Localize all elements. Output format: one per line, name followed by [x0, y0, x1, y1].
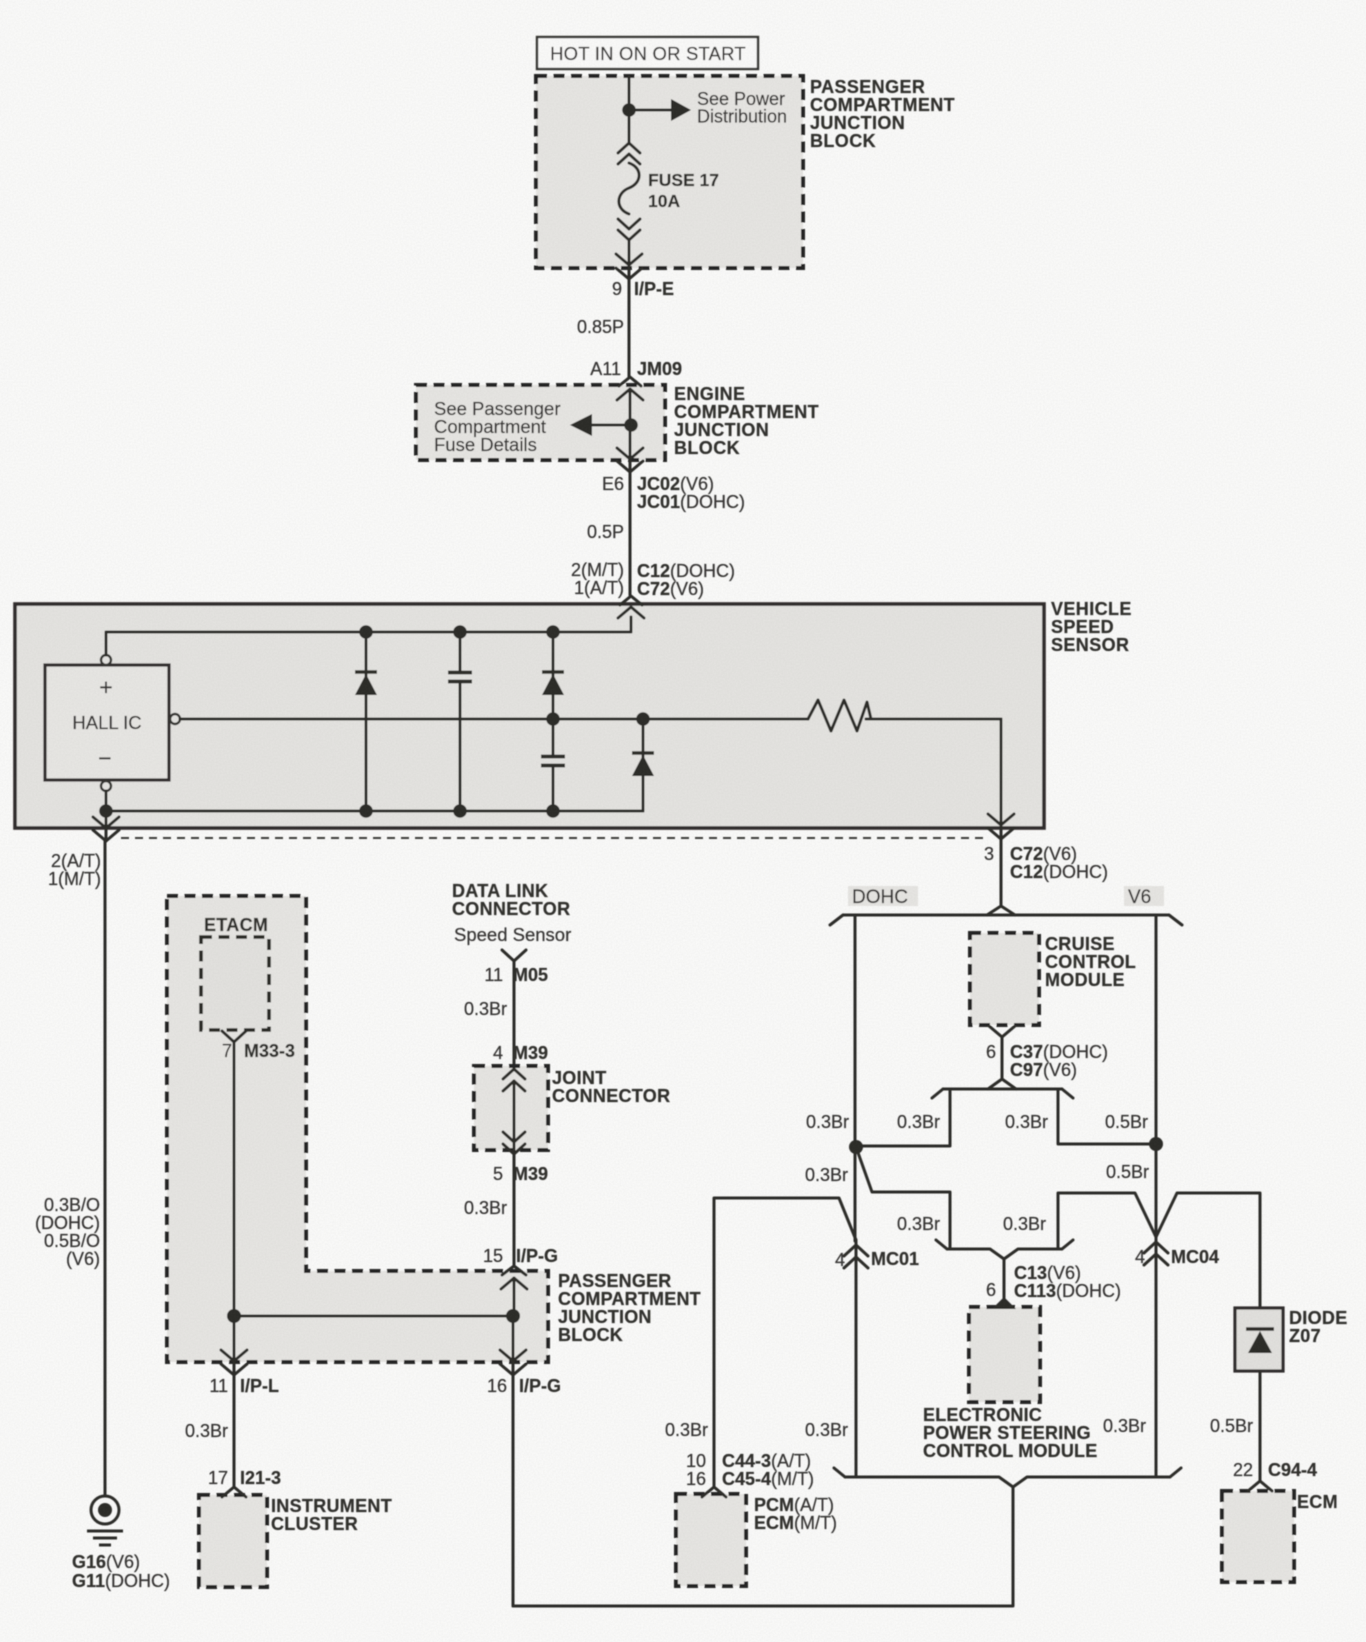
connector into instrument cluster — [222, 1487, 246, 1497]
passenger compartment junction block (top) — [536, 76, 803, 268]
connector MC04 — [1144, 1242, 1168, 1265]
arrow to fuse details — [570, 414, 631, 436]
wire PCM riser and MC01 feed — [714, 1198, 856, 1487]
node dot block left — [227, 1309, 241, 1323]
wire MC01 down — [855, 1240, 858, 1477]
wire MC04 to diode Z07 — [1156, 1193, 1260, 1308]
engine compartment junction block — [416, 385, 665, 460]
wire into block to dot — [513, 1278, 516, 1316]
diode D3 — [632, 719, 654, 811]
connector chevrons joint top — [503, 1069, 525, 1091]
wire DOHC branch 0.3Br — [854, 915, 857, 1241]
wire I/P-G long run to EPS merge — [512, 1375, 515, 1606]
node dot F — [99, 804, 113, 818]
wire ground rail — [106, 791, 643, 841]
see power distribution arrow — [629, 89, 787, 127]
wire 0.85P — [628, 279, 631, 377]
connector 3 C72/C12 right exit — [988, 814, 1014, 839]
wire MC04 to C13 branch right — [1058, 1193, 1156, 1249]
connector JM09 into engine block — [617, 377, 643, 400]
node HOT IN ON OR START — [537, 37, 758, 69]
diode D1 — [355, 632, 377, 811]
joint connector box — [474, 1066, 548, 1150]
node dot C — [546, 625, 560, 639]
connector 11 I/P-L exit — [221, 1350, 247, 1375]
capacitor C2 — [541, 719, 565, 811]
diode Z07 — [1235, 1308, 1283, 1371]
node dot block right — [506, 1309, 520, 1323]
wire MC04 down — [1155, 1237, 1158, 1477]
node dot I — [546, 804, 560, 818]
connector chevrons joint bottom — [503, 1132, 525, 1154]
cruise control module — [970, 933, 1039, 1025]
node V6 label — [1124, 886, 1164, 908]
connector 2(A/T)/1(M/T) left exit — [93, 817, 119, 841]
node junction dot engine block — [624, 418, 638, 432]
resistor R1 — [808, 700, 871, 731]
wire through joint connector — [513, 1081, 516, 1153]
connector 7 M33-3 — [222, 1031, 246, 1042]
connector 9 I/P-E at block exit — [616, 254, 642, 279]
fuse F17 terminal chevrons (top) — [618, 143, 640, 164]
ground G16/G11 — [87, 1496, 123, 1545]
wire fuse to block edge — [628, 240, 631, 278]
wire fan to DOHC dot — [856, 1089, 950, 1146]
wire merged to bottom run — [513, 1487, 1013, 1606]
node junction dot — [622, 103, 636, 117]
capacitor C1 — [448, 632, 472, 811]
connector MC01 — [844, 1245, 868, 1268]
wire 0.5P — [629, 472, 632, 595]
wire ETACM to block bottom — [233, 1042, 236, 1316]
connector C12/C72 into speed sensor — [618, 596, 644, 618]
passenger compartment junction block (lower) — [167, 896, 548, 1362]
connector 15 into block — [501, 1266, 527, 1289]
node DOHC/V6 branch bus — [830, 906, 1182, 925]
pin terminal bottom of hall ic — [101, 781, 111, 791]
wire dot to C13 branch left — [856, 1147, 950, 1249]
fuse terminal chevrons (bottom) — [618, 219, 640, 240]
wire signal rail — [180, 718, 1001, 721]
wire M05 to joint connector 0.3Br — [513, 961, 516, 1068]
wire diode to ECM — [1259, 1371, 1262, 1480]
node dot G — [359, 804, 373, 818]
node dot D — [546, 712, 560, 726]
wire fan to V6 dot — [1058, 1089, 1156, 1144]
wire harness boundary dashed — [121, 837, 986, 839]
diode D2 — [542, 632, 564, 719]
wire joint to block 0.3Br — [513, 1154, 516, 1266]
connector into PCM — [702, 1487, 726, 1497]
PCM module box — [676, 1494, 746, 1586]
node bottom merge bus — [834, 1468, 1181, 1487]
wire from HOT into junction block — [628, 77, 631, 110]
wire internal block link — [234, 1315, 513, 1318]
wire through engine block — [629, 389, 632, 470]
pin terminal top of hall ic — [101, 655, 111, 665]
connector 6 C37/C97 cruise module — [989, 1026, 1015, 1037]
wire V6 branch 0.5Br — [1155, 915, 1158, 1238]
wire block right down — [512, 1316, 515, 1374]
wire dot to fuse — [628, 110, 631, 143]
wire speed signal down to split — [1000, 839, 1003, 906]
node dot H — [453, 804, 467, 818]
wire vcc rail — [106, 617, 631, 655]
connector C94-4 into ECM — [1248, 1481, 1272, 1491]
connector 11 M05 — [502, 950, 526, 961]
node C37 fan-out bus — [932, 1079, 1073, 1098]
fuse FUSE 17 10A element — [619, 163, 639, 214]
connector E6 JC02/JC01 exit — [617, 448, 643, 472]
node C13 fan-in bus — [936, 1240, 1073, 1259]
connector C13 into EPS module — [992, 1297, 1016, 1309]
instrument cluster box — [199, 1495, 267, 1587]
wire ground branch down left side — [104, 841, 107, 1495]
node dot A — [359, 625, 373, 639]
hall ic U1 — [45, 665, 169, 780]
node dot B — [453, 625, 467, 639]
wire 0.3Br to instrument cluster — [233, 1375, 236, 1487]
wire block left down — [233, 1316, 236, 1374]
node DOHC label — [848, 886, 918, 908]
pin terminal right of hall ic — [170, 714, 180, 724]
wire resistor to right exit — [1000, 719, 1003, 839]
electronic power steering control module — [969, 1307, 1040, 1402]
node dot V6 join — [1149, 1137, 1163, 1151]
node dot DOHC join — [849, 1140, 863, 1154]
wire cruise module to fan — [1001, 1037, 1004, 1079]
node dot E — [636, 712, 650, 726]
ECM module box — [1222, 1491, 1294, 1582]
vehicle speed sensor box — [15, 604, 1044, 828]
connector 16 I/P-G exit — [500, 1350, 526, 1375]
wire C13 to EPS module — [1003, 1259, 1006, 1298]
